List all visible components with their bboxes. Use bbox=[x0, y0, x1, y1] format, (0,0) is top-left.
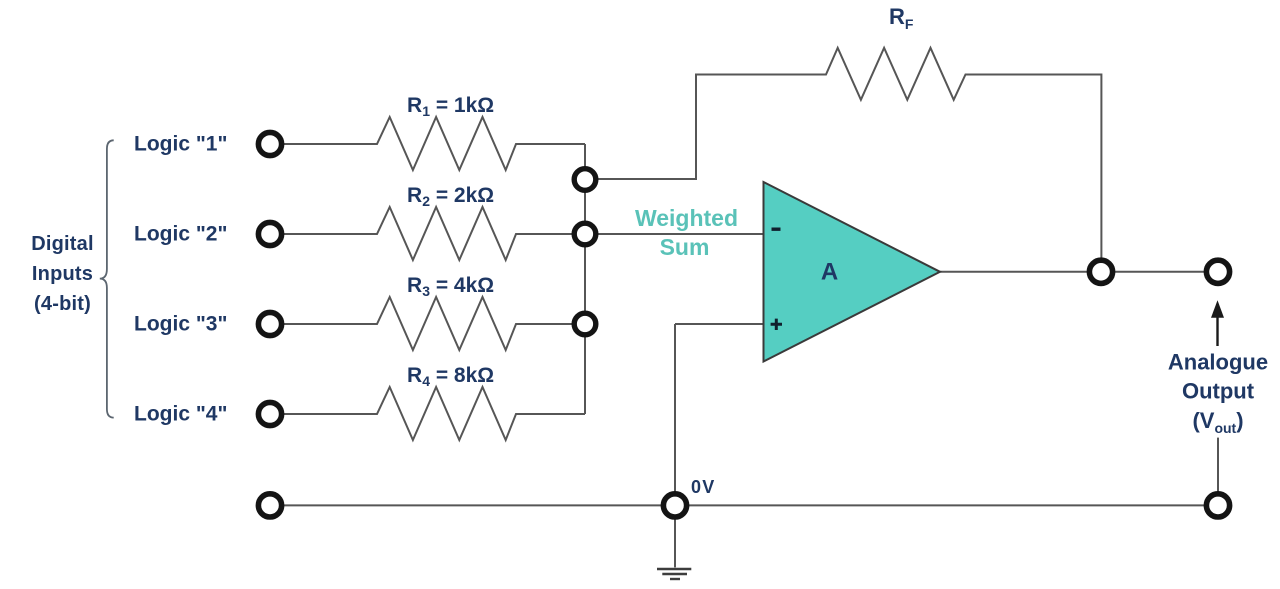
svg-text:Sum: Sum bbox=[660, 234, 710, 260]
svg-text:R3 = 4kΩ: R3 = 4kΩ bbox=[407, 274, 494, 299]
svg-text:A: A bbox=[821, 258, 838, 285]
svg-text:R2 = 2kΩ: R2 = 2kΩ bbox=[407, 184, 494, 209]
svg-text:Logic "3": Logic "3" bbox=[134, 312, 227, 335]
svg-text:Output: Output bbox=[1182, 379, 1255, 404]
svg-text:0V: 0V bbox=[691, 477, 715, 497]
svg-text:Digital: Digital bbox=[31, 233, 94, 255]
svg-text:(4-bit): (4-bit) bbox=[34, 293, 91, 315]
svg-text:Inputs: Inputs bbox=[32, 263, 93, 285]
svg-text:Weighted: Weighted bbox=[635, 205, 738, 231]
svg-text:R4 = 8kΩ: R4 = 8kΩ bbox=[407, 364, 494, 389]
svg-text:Analogue: Analogue bbox=[1168, 350, 1268, 375]
svg-text:R1 = 1kΩ: R1 = 1kΩ bbox=[407, 94, 494, 119]
svg-text:Logic "1": Logic "1" bbox=[134, 132, 227, 155]
svg-text:Logic "4": Logic "4" bbox=[134, 402, 227, 425]
svg-text:Logic "2": Logic "2" bbox=[134, 222, 227, 245]
